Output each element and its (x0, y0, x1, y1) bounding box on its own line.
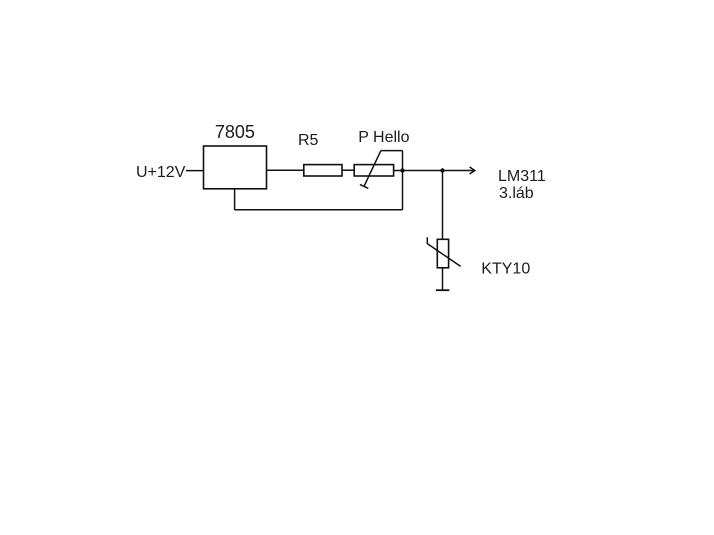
sensor KTY10 diagonal end tick (426, 237, 428, 244)
ground (436, 289, 450, 291)
svg-text:U+12V: U+12V (136, 164, 186, 181)
arrowhead to LM311 (470, 167, 475, 174)
wire regulator output to R5 (267, 169, 305, 171)
potentiometer P body (354, 165, 393, 176)
wire stub regulator ground (234, 188, 236, 210)
junction node B (440, 168, 444, 172)
svg-text:P Hello: P Hello (358, 129, 409, 146)
junction node A (400, 168, 404, 172)
resistor R5 (304, 165, 342, 176)
wire wiper to loop top (381, 150, 403, 152)
wire loop bottom horizontal (235, 209, 403, 211)
svg-text:R5: R5 (298, 132, 319, 149)
wire loop right vertical (402, 151, 404, 210)
wire R5 to potentiometer (342, 169, 354, 171)
potentiometer P wiper arm (364, 151, 381, 187)
wire main output to arrow (394, 170, 474, 172)
svg-text:KTY10: KTY10 (481, 260, 530, 277)
regulator U1 7805 box (204, 146, 267, 189)
svg-text:3.láb: 3.láb (499, 185, 534, 202)
sensor KTY10 diagonal line (427, 244, 460, 267)
sensor KTY10 body (437, 239, 448, 267)
potentiometer P wiper end bar (360, 184, 368, 188)
svg-text:LM311: LM311 (498, 168, 546, 185)
wire sensor to ground (442, 268, 444, 290)
wire node B down to sensor (442, 171, 444, 240)
svg-text:7805: 7805 (215, 122, 255, 142)
wire input from U+12V to regulator (186, 170, 204, 172)
